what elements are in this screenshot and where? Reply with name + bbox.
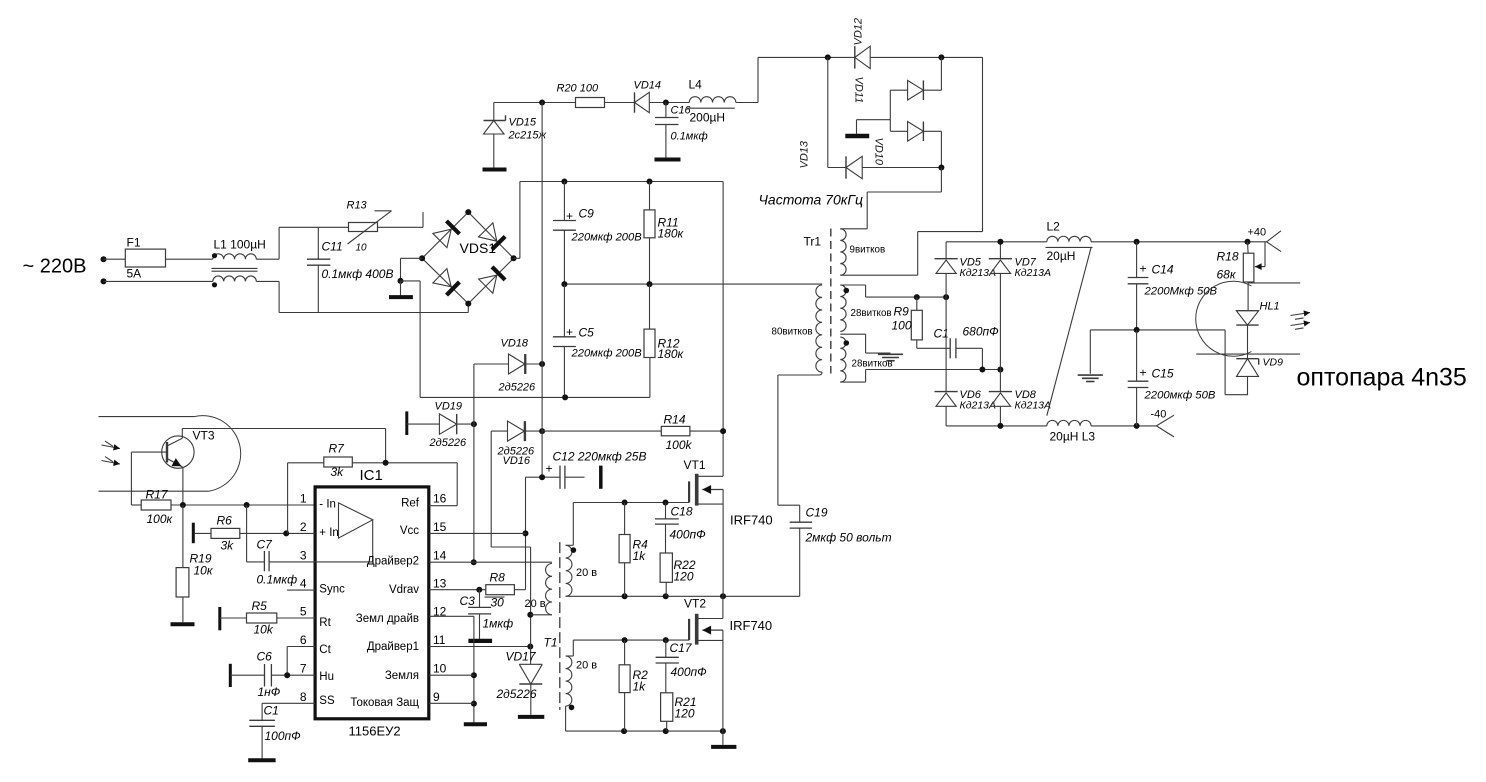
svg-text:SS: SS — [319, 695, 335, 707]
svg-text:13: 13 — [433, 577, 447, 591]
svg-text:100k: 100k — [666, 438, 693, 452]
svg-text:20 в: 20 в — [525, 598, 546, 610]
svg-text:Драйвер2: Драйвер2 — [367, 555, 419, 567]
svg-text:оптопара 4n35: оптопара 4n35 — [1297, 364, 1467, 392]
svg-text:VT3: VT3 — [193, 429, 215, 443]
svg-text:C16: C16 — [671, 105, 692, 117]
svg-text:- In: - In — [319, 499, 336, 511]
svg-text:IC1: IC1 — [360, 467, 383, 484]
svg-text:20µН L3: 20µН L3 — [1050, 430, 1096, 444]
svg-text:10: 10 — [356, 243, 368, 254]
svg-text:7: 7 — [300, 662, 307, 676]
svg-text:L1 100µH: L1 100µH — [214, 238, 266, 252]
svg-text:20µН: 20µН — [1047, 249, 1076, 263]
svg-text:400пФ: 400пФ — [671, 665, 708, 679]
svg-text:VDS1: VDS1 — [460, 240, 497, 256]
svg-text:220мкф 200В: 220мкф 200В — [571, 348, 643, 360]
svg-text:80витков: 80витков — [772, 327, 813, 338]
svg-text:8: 8 — [300, 690, 307, 704]
svg-text:Tr1: Tr1 — [804, 235, 822, 249]
svg-text:C18: C18 — [671, 505, 693, 519]
svg-text:100пФ: 100пФ — [265, 729, 302, 743]
svg-text:+40: +40 — [1248, 227, 1267, 239]
svg-text:+: + — [546, 462, 553, 476]
svg-text:100к: 100к — [147, 512, 174, 526]
svg-text:1k: 1k — [633, 680, 647, 694]
svg-text:Vdrav: Vdrav — [389, 584, 419, 596]
svg-text:T1: T1 — [544, 636, 558, 650]
svg-text:C6: C6 — [257, 650, 273, 664]
svg-text:1мкф: 1мкф — [483, 617, 514, 631]
svg-text:C15: C15 — [1152, 367, 1174, 381]
svg-text:220мкф 200В: 220мкф 200В — [571, 232, 643, 244]
svg-text:3: 3 — [300, 548, 307, 562]
svg-text:68к: 68к — [1217, 268, 1237, 282]
svg-text:10к: 10к — [194, 564, 214, 578]
svg-text:14: 14 — [433, 548, 447, 562]
svg-text:R14: R14 — [664, 413, 686, 427]
svg-text:2мкф 50 вольт: 2мкф 50 вольт — [805, 531, 892, 545]
svg-text:Кд213А: Кд213А — [1015, 267, 1052, 279]
svg-text:R13: R13 — [347, 200, 368, 212]
svg-text:VD11: VD11 — [853, 77, 865, 104]
svg-text:120: 120 — [674, 570, 694, 584]
svg-text:IRF740: IRF740 — [730, 513, 773, 528]
svg-text:Rt: Rt — [319, 617, 331, 629]
svg-text:2: 2 — [300, 520, 307, 534]
svg-text:180к: 180к — [658, 227, 685, 241]
svg-text:5A: 5A — [127, 267, 142, 281]
svg-text:VD15: VD15 — [509, 117, 537, 129]
svg-text:Hu: Hu — [319, 671, 334, 683]
svg-text:2д5226: 2д5226 — [498, 382, 537, 394]
svg-text:C7: C7 — [257, 538, 274, 552]
svg-text:30: 30 — [491, 596, 505, 610]
svg-text:11: 11 — [433, 633, 446, 647]
svg-text:20 в: 20 в — [576, 567, 597, 579]
svg-text:R18: R18 — [1217, 250, 1239, 264]
svg-text:400пФ: 400пФ — [670, 528, 707, 542]
svg-text:VT2: VT2 — [684, 597, 706, 611]
svg-text:R17: R17 — [146, 488, 169, 502]
svg-text:28витков: 28витков — [851, 308, 892, 319]
svg-text:C1: C1 — [264, 704, 279, 718]
svg-text:2с215ж: 2с215ж — [508, 130, 547, 142]
svg-text:C17: C17 — [670, 641, 693, 655]
svg-text:VD9: VD9 — [1263, 357, 1284, 369]
svg-text:15: 15 — [433, 520, 447, 534]
svg-text:4: 4 — [300, 577, 307, 591]
svg-text:IRF740: IRF740 — [730, 618, 773, 633]
svg-text:C14: C14 — [1152, 263, 1174, 277]
svg-text:2200Мкф 50В: 2200Мкф 50В — [1144, 286, 1218, 298]
svg-text:Кд213А: Кд213А — [1015, 400, 1052, 412]
svg-text:+: + — [1140, 262, 1147, 276]
svg-text:2д5226: 2д5226 — [429, 437, 468, 449]
svg-text:VD13: VD13 — [799, 140, 811, 168]
svg-text:680пФ: 680пФ — [963, 325, 1000, 339]
svg-text:+: + — [566, 325, 573, 339]
svg-text:L2: L2 — [1047, 220, 1061, 234]
svg-text:R7: R7 — [329, 442, 346, 456]
svg-text:100: 100 — [892, 319, 912, 333]
svg-text:3k: 3k — [331, 465, 345, 479]
svg-text:Земля: Земля — [385, 670, 419, 682]
svg-text:1k: 1k — [633, 549, 647, 563]
svg-text:3k: 3k — [221, 539, 235, 553]
svg-text:5: 5 — [300, 605, 307, 619]
svg-text:R20 100: R20 100 — [557, 83, 599, 95]
svg-text:1156ЕУ2: 1156ЕУ2 — [349, 724, 401, 739]
svg-text:Частота 70кГц: Частота 70кГц — [759, 192, 864, 208]
svg-text:VD10: VD10 — [873, 138, 885, 166]
svg-text:10k: 10k — [254, 623, 274, 637]
svg-text:180к: 180к — [658, 347, 685, 361]
svg-text:C5: C5 — [579, 326, 595, 340]
svg-text:C19: C19 — [806, 506, 828, 520]
svg-text:20 в: 20 в — [576, 660, 597, 672]
svg-text:VD16: VD16 — [503, 455, 531, 467]
svg-text:VD12: VD12 — [853, 18, 865, 46]
svg-text:F1: F1 — [127, 236, 141, 250]
svg-text:6: 6 — [300, 633, 307, 647]
svg-text:9витков: 9витков — [850, 245, 886, 256]
svg-text:9: 9 — [433, 690, 440, 704]
svg-text:VD18: VD18 — [501, 338, 529, 350]
svg-text:Земл драйв: Земл драйв — [356, 613, 419, 625]
svg-text:R9: R9 — [894, 305, 910, 319]
svg-text:~ 220В: ~ 220В — [23, 256, 87, 278]
svg-text:2200мкф 50В: 2200мкф 50В — [1144, 390, 1216, 402]
svg-text:10: 10 — [433, 662, 447, 676]
svg-text:+: + — [566, 209, 573, 223]
svg-text:Sync: Sync — [319, 584, 345, 596]
svg-text:200µН: 200µН — [690, 111, 726, 125]
svg-text:Токовая Защ: Токовая Защ — [350, 697, 419, 709]
svg-text:L4: L4 — [689, 78, 703, 92]
svg-text:VD19: VD19 — [435, 401, 463, 413]
svg-text:0.1мкф: 0.1мкф — [257, 573, 298, 587]
svg-text:2д5226: 2д5226 — [496, 687, 537, 701]
svg-text:Vcc: Vcc — [400, 525, 419, 537]
svg-text:VD14: VD14 — [634, 80, 662, 92]
svg-text:Ref: Ref — [401, 498, 420, 510]
svg-text:1нФ: 1нФ — [258, 685, 281, 699]
svg-text:-40: -40 — [1151, 409, 1167, 421]
svg-text:R6: R6 — [217, 514, 233, 528]
svg-text:0.1мкф: 0.1мкф — [671, 131, 708, 143]
svg-text:Ct: Ct — [319, 644, 331, 656]
svg-text:+: + — [1140, 366, 1147, 380]
svg-text:120: 120 — [675, 707, 695, 721]
svg-text:VD17: VD17 — [506, 650, 537, 664]
svg-text:R5: R5 — [252, 599, 268, 613]
svg-text:VT1: VT1 — [684, 458, 706, 472]
svg-text:C9: C9 — [579, 207, 595, 221]
svg-text:Драйвер1: Драйвер1 — [367, 641, 419, 653]
svg-text:R8: R8 — [490, 571, 506, 585]
svg-text:HL1: HL1 — [1260, 301, 1280, 313]
svg-text:C3: C3 — [460, 594, 476, 608]
svg-text:16: 16 — [433, 492, 447, 506]
svg-text:C12 220мкф 25В: C12 220мкф 25В — [553, 450, 647, 464]
svg-text:1: 1 — [300, 492, 307, 506]
svg-text:+ In: + In — [319, 527, 339, 539]
svg-text:C11: C11 — [322, 240, 343, 254]
svg-text:0.1мкф 400В: 0.1мкф 400В — [322, 267, 394, 281]
